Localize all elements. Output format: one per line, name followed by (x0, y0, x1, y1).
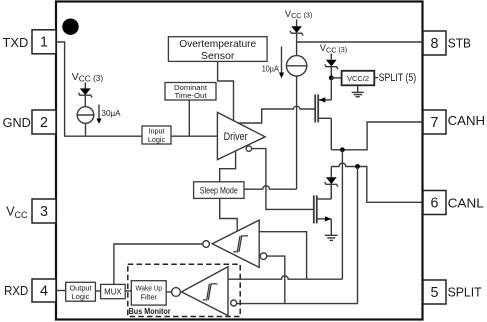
VCC/2 box (342, 71, 375, 86)
svg-text:6: 6 (431, 195, 439, 211)
node junction dot D3/VCC2/Q1 (329, 76, 334, 81)
wire Q1 source down to CANH node (330, 118, 332, 150)
Wake Up Filter box (131, 281, 166, 305)
U2 inverting input bubble (260, 253, 267, 260)
svg-text:Wake Up: Wake Up (135, 283, 162, 292)
svg-text:8: 8 (431, 36, 439, 52)
pin 3 box (32, 199, 56, 223)
comparator U3 wake-up receiver triangle (182, 267, 229, 316)
svg-text:5: 5 (431, 285, 439, 301)
arrow 10uA (279, 47, 284, 79)
svg-text:STB: STB (448, 36, 471, 51)
pin 7 box (423, 110, 446, 134)
svg-text:VCC (3): VCC (3) (285, 9, 312, 20)
svg-text:TXD: TXD (3, 36, 29, 50)
current source I2 10uA (286, 56, 306, 190)
MUX box (101, 284, 126, 298)
svg-text:VCC (3): VCC (3) (72, 72, 104, 83)
svg-text:3: 3 (40, 204, 48, 220)
svg-text:Logic: Logic (148, 135, 166, 144)
svg-text:VCC (3): VCC (3) (320, 43, 347, 54)
svg-text:GND: GND (3, 116, 31, 130)
svg-text:Sleep Mode: Sleep Mode (200, 185, 238, 195)
pin 1 box (32, 30, 56, 54)
U3 hysteresis symbol (203, 284, 218, 300)
wire Output Logic to MUX (95, 290, 100, 292)
svg-text:Time-Out: Time-Out (175, 91, 207, 100)
wire U2 inverting input to CANL bus (267, 256, 285, 304)
IC outline (56, 2, 423, 320)
svg-text:MUX: MUX (104, 287, 122, 297)
wire CANH down to receiver bus (341, 150, 343, 279)
current source I1 30uA (77, 107, 94, 137)
node CANL junction dot (355, 164, 360, 169)
pin 6 box (423, 191, 446, 215)
svg-text:2: 2 (40, 115, 48, 131)
U3 output bubble (172, 288, 181, 297)
wire CANH receiver bus (hop over U2 inv vertical) (228, 276, 342, 279)
svg-text:RXD: RXD (4, 284, 28, 298)
ground under VCC/2 (352, 85, 364, 96)
wire Sleep Mode to receiver U2 (220, 198, 238, 231)
wire CANL down to receiver bus (357, 167, 359, 304)
svg-text:1: 1 (40, 35, 48, 51)
wire MUX to Wake Up Filter (125, 290, 131, 292)
U2 hysteresis symbol (233, 236, 248, 252)
comparator U2 receiver triangle (212, 220, 259, 267)
wire CANH node to pin 7 (331, 122, 423, 150)
diode D3 zener from VCC (325, 54, 338, 78)
transistor Q1 high-side MOSFET (315, 94, 331, 122)
dashed box Bus Monitor (128, 264, 240, 316)
ground under Q2 (325, 219, 338, 241)
wire Driver to Sleep Mode (220, 151, 236, 182)
wire RXD pin4 to Output Logic (56, 290, 66, 292)
svg-text:Overtemperature: Overtemperature (179, 39, 256, 50)
svg-text:VCC/2: VCC/2 (347, 74, 369, 83)
svg-text:4: 4 (40, 283, 48, 299)
wire to STB pin8 (297, 41, 423, 43)
pin 5 box (423, 280, 446, 304)
Driver inverting bubble (246, 146, 251, 151)
pin 8 box (423, 31, 446, 55)
svg-text:Logic: Logic (72, 292, 90, 301)
svg-text:30µA: 30µA (102, 108, 121, 118)
svg-text:Bus Monitor: Bus Monitor (129, 307, 171, 316)
wire Driver CANL output to Q2 gate (252, 149, 314, 210)
wire Q2 drain up to D4 (330, 184, 332, 199)
label SPLIT (5) (374, 77, 378, 79)
diode D4 zener CANL clamp (325, 167, 338, 200)
wire Input Logic to Driver (171, 135, 217, 137)
svg-text:CANL: CANL (448, 195, 484, 210)
svg-text:Filter: Filter (140, 292, 157, 301)
Overtemperature Sensor box (168, 37, 267, 62)
svg-text:7: 7 (431, 115, 439, 131)
Dominant Time-Out box (165, 83, 216, 101)
wire Sleep Mode right to I2 (hop over Q2 gate wire) (244, 186, 297, 189)
svg-text:Sensor: Sensor (201, 51, 235, 62)
wire TXD pin1 to Input Logic (56, 42, 142, 136)
wire U2 top input (259, 232, 306, 280)
op-amp U1 Driver triangle (217, 112, 265, 159)
svg-text:10µA: 10µA (262, 63, 279, 73)
pin 2 box (32, 110, 56, 134)
svg-text:CANH: CANH (448, 113, 486, 128)
wire Dominant Time-Out down to TXD net (188, 100, 190, 136)
pin 4 box (32, 279, 56, 302)
wire U2 output to MUX (114, 244, 203, 284)
node CANH junction dot (340, 147, 345, 152)
wire Driver CANH output to Q1 gate (hop over I2 wire) (238, 106, 315, 123)
wire dot down to Q1 drain (330, 78, 332, 100)
Output Logic box (66, 282, 96, 301)
transistor Q2 low-side MOSFET (314, 195, 332, 223)
diode D2 zener from VCC (290, 20, 303, 56)
U3 inverting input bubble (231, 300, 237, 306)
svg-text:SPLIT (5): SPLIT (5) (379, 72, 417, 84)
Sleep Mode box (194, 182, 244, 199)
svg-text:Driver: Driver (224, 131, 248, 143)
wire dot to VCC/2 box (331, 77, 341, 79)
arrow 30uA (96, 105, 101, 124)
wire Wake Up Filter to U3 bubble (166, 291, 171, 293)
wire CANL node line (hop over CANH vertical) (331, 163, 423, 202)
diode D1 zener from VCC (79, 83, 93, 107)
wire Overtemperature Sensor to Driver (218, 61, 234, 120)
pin-1 marker dot (62, 19, 78, 35)
svg-text:SPLIT: SPLIT (448, 284, 482, 299)
wire CANL receiver bus (237, 303, 358, 305)
Input Logic box (142, 126, 171, 144)
U2 output bubble (203, 241, 210, 248)
